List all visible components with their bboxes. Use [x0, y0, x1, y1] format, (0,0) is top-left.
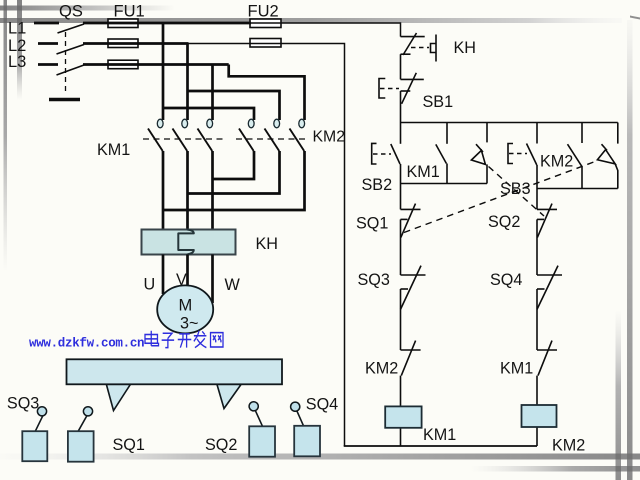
- pushbutton SB1 NC: [379, 73, 424, 123]
- svg-text:QS: QS: [59, 3, 83, 21]
- contact KM2 NC interlock: [401, 341, 421, 407]
- svg-text:KM2: KM2: [365, 360, 398, 378]
- contact KM2 aux NO: [568, 123, 583, 189]
- limit switch SQ3 device: [22, 407, 47, 462]
- wire left subbus: [401, 183, 488, 185]
- contact SQ4 NC: [537, 266, 562, 350]
- svg-text:SQ1: SQ1: [113, 436, 145, 454]
- fuse FU1 a body: [108, 19, 138, 28]
- wire KM2 c merge: [163, 151, 305, 210]
- svg-text:SB1: SB1: [423, 93, 454, 111]
- contact KH NC: [401, 33, 437, 79]
- wire KM1 c down to KH: [211, 151, 214, 231]
- svg-text:www.dzkfw.com.cn: www.dzkfw.com.cn: [29, 337, 144, 351]
- pushbutton SB3 NO: [508, 123, 537, 189]
- wire phase2 main: [83, 42, 189, 45]
- fuse FU1 c body: [108, 60, 138, 68]
- wire drop phase3 to KM1 contact: [211, 65, 214, 121]
- wire L3 stub: [38, 63, 58, 66]
- contact SQ1 NO triangle: [597, 123, 617, 189]
- svg-text:FU2: FU2: [248, 3, 279, 21]
- svg-text:KM1: KM1: [423, 426, 456, 444]
- 电: [145, 331, 159, 346]
- svg-text:L1: L1: [8, 20, 26, 38]
- switch QS blade pole3: [57, 65, 85, 75]
- svg-text:SQ4: SQ4: [490, 271, 522, 289]
- wire W motor lead: [211, 255, 214, 304]
- switch QS blade pole1: [58, 24, 85, 33]
- switch QS linkage dashed: [65, 32, 67, 95]
- contactor KM2 main contacts: [236, 119, 309, 151]
- fuse FU2 a body: [250, 19, 281, 28]
- limit switch SQ1 device: [68, 407, 94, 462]
- svg-text:U: U: [144, 276, 156, 294]
- svg-text:L3: L3: [8, 53, 26, 71]
- wire phase2 branch to KM2: [188, 91, 280, 120]
- limit switch SQ2 device: [249, 402, 275, 457]
- wire KM2 coil bottom: [536, 427, 538, 446]
- contact KM1 aux NO: [436, 123, 447, 184]
- wire U motor lead: [162, 255, 165, 295]
- dog triangle left: [106, 385, 130, 411]
- fuse FU2 b body: [250, 39, 281, 48]
- svg-text:SB3: SB3: [500, 180, 531, 198]
- frame bar bottom lower: [470, 466, 640, 472]
- svg-text:KM2: KM2: [552, 437, 585, 455]
- svg-text:KH: KH: [454, 39, 477, 57]
- svg-text:M: M: [179, 297, 193, 315]
- wire phase3 branch to KM2: [229, 65, 305, 121]
- svg-text:3~: 3~: [180, 315, 198, 333]
- 发: [194, 331, 206, 348]
- 开: [178, 334, 192, 348]
- wire phase1 branch to KM2: [163, 108, 254, 120]
- svg-text:SQ2: SQ2: [205, 436, 237, 454]
- wire phase1 main: [83, 22, 251, 25]
- wire bottom return: [344, 445, 537, 447]
- svg-text:SB2: SB2: [362, 176, 393, 194]
- wire KM1 coil bottom: [400, 428, 402, 446]
- relay KH heater box: [142, 230, 236, 255]
- svg-text:W: W: [225, 276, 241, 294]
- frame bar left inner: [17, 0, 22, 100]
- contactor KM1 main contacts: [143, 119, 223, 151]
- coil KM2: [522, 405, 557, 427]
- svg-text:SQ3: SQ3: [358, 271, 390, 289]
- wire drop phase2 to KM1 contact: [186, 44, 189, 121]
- dashed link SQ2 to its NO: [489, 167, 545, 217]
- wire KM2 b merge: [188, 151, 280, 194]
- fuse FU1 b body: [108, 39, 138, 48]
- wire L2 stub: [38, 42, 58, 45]
- motor M circle: [157, 285, 213, 333]
- frame bar top thin: [0, 6, 175, 11]
- contact SQ1 NC: [401, 184, 421, 276]
- svg-text:SQ2: SQ2: [488, 213, 520, 231]
- watermark chinese 电子开发网: [145, 331, 223, 348]
- contact KM1 NC interlock: [537, 341, 557, 405]
- frame crossings bottom-right: [616, 454, 633, 472]
- frame corner tick top-right: [630, 16, 640, 20]
- wire drop phase1 to KM1 contact: [162, 23, 165, 120]
- svg-text:KM1: KM1: [97, 141, 130, 159]
- wire phase2 control thin left rail top: [188, 44, 345, 447]
- wire KM1 b down to KH: [186, 151, 189, 231]
- frame crossings top-left: [4, 6, 23, 24]
- wire control bus: [401, 122, 618, 124]
- svg-text:KM2: KM2: [540, 153, 573, 171]
- wire L1 stub: [34, 22, 59, 25]
- wire V motor lead: [186, 255, 189, 287]
- 网: [211, 333, 223, 347]
- contact SQ2 NC: [537, 189, 557, 276]
- svg-text:SQ3: SQ3: [7, 395, 39, 413]
- svg-text:SQ4: SQ4: [306, 396, 338, 414]
- svg-text:KM1: KM1: [500, 360, 533, 378]
- svg-text:KH: KH: [256, 235, 279, 253]
- 子: [162, 333, 174, 347]
- frame bar left outer: [4, 0, 8, 272]
- wire KM1 a down to KH: [162, 151, 165, 231]
- frame bar top main: [0, 18, 622, 23]
- workbench table: [67, 359, 283, 384]
- contact SQ2 NO triangle: [471, 123, 487, 184]
- wire KM2 a merge: [213, 151, 255, 179]
- frame bar right outer: [627, 20, 633, 480]
- wire phase1 control thin: [250, 23, 401, 37]
- frame bar bottom main: [0, 454, 640, 460]
- wire right subbus: [537, 188, 618, 190]
- svg-text:KM1: KM1: [407, 163, 440, 181]
- switch QS handle bar: [49, 98, 80, 102]
- contact SQ3 NC: [401, 266, 426, 350]
- dog triangle right: [217, 385, 241, 409]
- svg-text:SQ1: SQ1: [356, 215, 388, 233]
- switch QS blade pole2: [57, 45, 85, 55]
- wire phase3 main: [83, 63, 229, 66]
- frame bar right inner: [616, 310, 622, 480]
- pushbutton SB2 NO: [372, 123, 401, 184]
- coil KM1: [385, 406, 421, 427]
- svg-text:KM2: KM2: [313, 129, 345, 146]
- dashed link SQ1 to its NO: [404, 161, 597, 233]
- limit switch SQ4 device: [291, 402, 320, 456]
- svg-text:FU1: FU1: [114, 3, 145, 21]
